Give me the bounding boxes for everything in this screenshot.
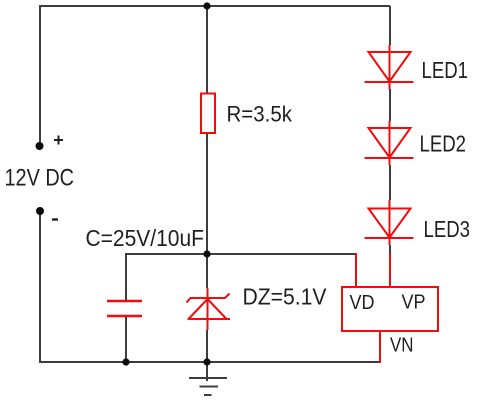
node: top junction — [203, 2, 210, 9]
node: + terminal — [36, 142, 44, 150]
wire middle vertical: resistor to C node — [206, 133, 208, 254]
wire left lower (- terminal to bottom rail) — [39, 211, 41, 363]
node: capacitor bottom junction — [122, 358, 129, 365]
wire VD pin (red) — [355, 253, 357, 287]
node: C junction on middle wire — [203, 250, 210, 257]
capacitor C (red plates) — [107, 301, 142, 316]
svg-text:LED1: LED1 — [422, 57, 469, 83]
svg-text:12V DC: 12V DC — [5, 165, 75, 192]
svg-text:DZ=5.1V: DZ=5.1V — [243, 284, 328, 310]
wire middle vertical: C node to zener — [206, 254, 208, 288]
wire capacitor bottom to bottom rail — [125, 317, 127, 362]
LED1 — [365, 45, 414, 89]
wire right vertical: LED3 to VP wire — [389, 245, 391, 255]
zener diode DZ — [187, 288, 231, 330]
label + — [54, 136, 63, 145]
wire right vertical: top rail to LED1 — [389, 6, 391, 45]
svg-text:LED2: LED2 — [420, 131, 467, 157]
svg-text:C=25V/10uF: C=25V/10uF — [86, 225, 205, 251]
LED2 — [365, 121, 414, 165]
wire middle vertical: top rail to resistor — [206, 6, 208, 93]
wire C node down to capacitor top — [125, 253, 127, 300]
wire VP pin (red) — [389, 254, 391, 287]
wire top rail — [40, 5, 390, 7]
wire C node horizontal to VD corner — [126, 253, 356, 255]
ground — [189, 362, 227, 395]
node: ground junction — [203, 358, 210, 365]
svg-text:R=3.5k: R=3.5k — [227, 102, 293, 127]
wire left upper (top rail to + terminal) — [39, 5, 41, 146]
IC box U1 — [342, 287, 438, 331]
LED3 — [365, 200, 414, 245]
wire bottom rail — [39, 361, 380, 363]
wire VN pin (red) — [379, 331, 381, 363]
svg-text:LED3: LED3 — [424, 216, 471, 242]
svg-text:VN: VN — [390, 334, 414, 357]
wire right vertical: LED1 to LED2 — [389, 89, 391, 121]
wire right vertical: LED2 to LED3 — [389, 165, 391, 200]
label - — [52, 218, 58, 220]
svg-text:VD: VD — [350, 291, 375, 314]
wire middle vertical: zener to bottom rail — [206, 330, 208, 362]
resistor R (red body) — [201, 94, 215, 134]
node: - terminal — [36, 207, 44, 215]
svg-text:VP: VP — [402, 291, 426, 314]
